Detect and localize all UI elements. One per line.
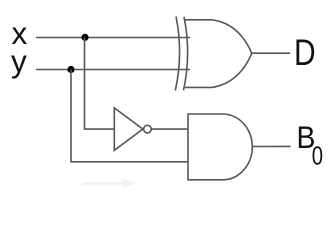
- junction dot on y wire: [67, 66, 74, 73]
- NOT gate U2 bubble: [144, 125, 152, 133]
- svg-text:0: 0: [312, 141, 323, 170]
- wire x horizontal to XOR: [36, 37, 190, 39]
- XOR gate U1 back arc: [184, 17, 188, 91]
- wire y horizontal to XOR: [36, 69, 190, 71]
- faint watermark arrow: [82, 179, 136, 188]
- XOR gate U1 body: [185, 20, 252, 88]
- svg-text:D: D: [294, 32, 316, 74]
- wire XOR output to D: [252, 52, 290, 54]
- junction dot on x wire: [81, 34, 88, 41]
- wire NOT output to AND upper input: [151, 128, 188, 130]
- NOT gate U2 triangle: [114, 108, 143, 151]
- wire vertical from y junction to AND lower input: [71, 70, 189, 162]
- wire AND output to B0: [253, 145, 291, 147]
- svg-text:y: y: [11, 43, 27, 79]
- wire vertical from x junction to NOT input: [85, 38, 115, 130]
- AND gate U3 body: [188, 114, 252, 180]
- XOR gate input double arc: [175, 17, 179, 91]
